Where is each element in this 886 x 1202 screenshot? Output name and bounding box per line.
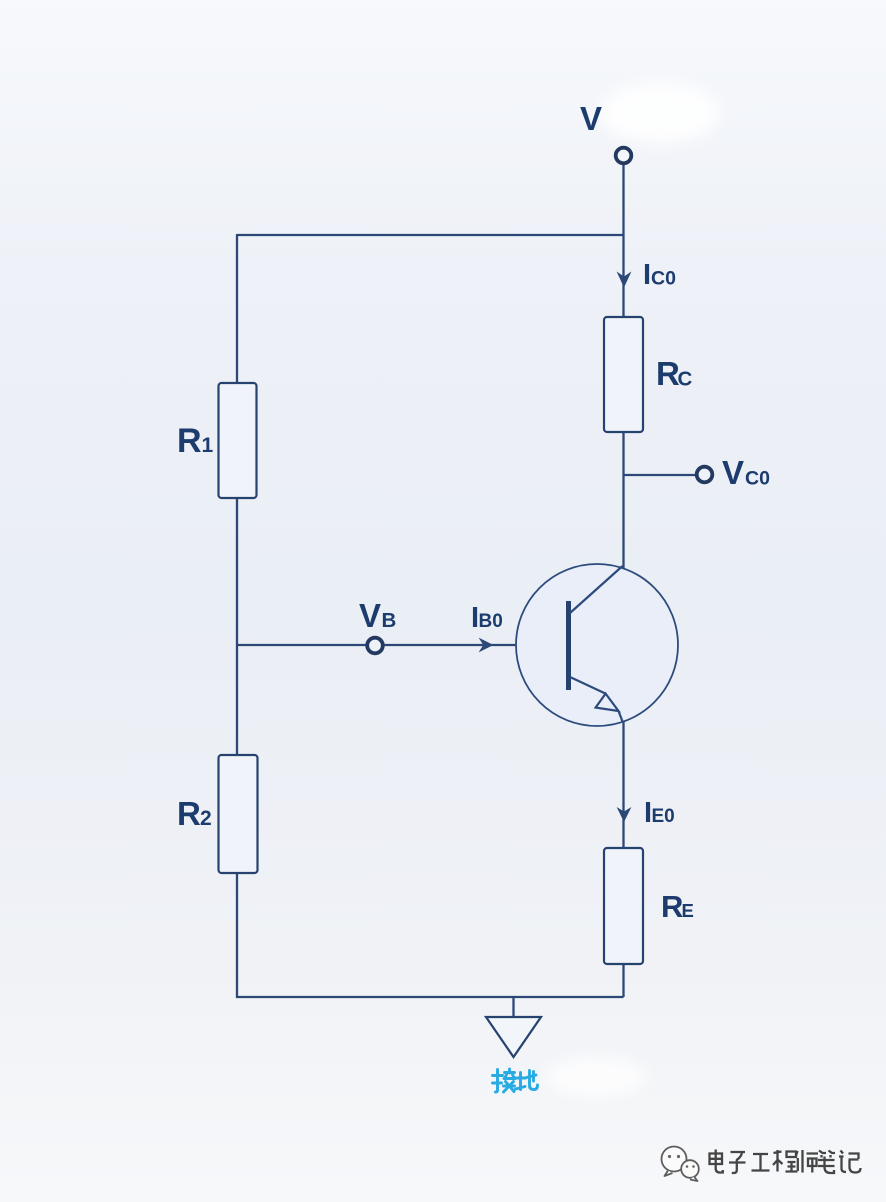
svg-text:E0: E0 — [652, 806, 675, 827]
wire: ground stub — [512, 997, 514, 1018]
wire: RC bottom to collector of transistor — [622, 432, 624, 568]
label IC0 — [643, 259, 676, 291]
svg-text:I: I — [643, 259, 651, 291]
svg-text:2: 2 — [200, 807, 212, 830]
wire: top rail from left column to collector branch — [237, 234, 624, 236]
wire: VC0 branch — [624, 474, 696, 476]
current arrow IB0 — [479, 638, 494, 653]
current arrow IC0 — [617, 272, 632, 288]
svg-text:B: B — [382, 609, 397, 632]
svg-text:R: R — [661, 889, 683, 924]
label R2 — [177, 795, 212, 832]
watermark text 电子工程师笔记 — [710, 1150, 861, 1174]
svg-text:1: 1 — [202, 434, 214, 457]
wire: emitter down to RE top — [622, 722, 624, 848]
ground — [486, 1017, 541, 1057]
svg-text:B0: B0 — [479, 611, 503, 632]
wire: RE bottom to bottom rail — [622, 964, 624, 997]
svg-text:C: C — [678, 368, 693, 391]
label VB — [359, 597, 396, 634]
node VC0 — [697, 467, 713, 483]
label R1 — [177, 422, 214, 460]
wire: left rail upper (top rail to R1) — [236, 234, 238, 383]
label IB0 — [471, 602, 503, 634]
watermark logo (WeChat icon) — [662, 1147, 699, 1182]
svg-text:R: R — [177, 795, 201, 832]
wire: left rail middle (R1 bottom to R2 top, through VB junction) — [236, 498, 238, 755]
wire: bottom rail — [236, 996, 624, 998]
wire: left rail lower (R2 bottom to bottom rail) — [236, 873, 238, 998]
label RC — [656, 355, 693, 392]
resistor RC — [604, 317, 643, 432]
resistor R2 — [219, 755, 258, 873]
label 接地 (ground) — [493, 1069, 538, 1092]
node VB — [367, 638, 383, 654]
svg-text:R: R — [656, 355, 680, 392]
wire: V terminal down to RC top — [622, 164, 624, 317]
svg-text:V: V — [722, 454, 744, 491]
label VC0 — [722, 454, 770, 491]
svg-text:C0: C0 — [745, 468, 770, 490]
resistor R1 — [219, 383, 257, 498]
node V (power supply terminal) — [616, 148, 632, 164]
svg-text:R: R — [177, 422, 202, 460]
label IE0 — [644, 797, 675, 829]
current arrow IE0 — [617, 807, 632, 822]
svg-text:E: E — [682, 900, 694, 921]
svg-text:V: V — [580, 100, 602, 137]
svg-text:C0: C0 — [651, 268, 676, 290]
label RE — [661, 889, 694, 924]
svg-text:V: V — [359, 597, 381, 634]
transistor Q1 (NPN) — [516, 564, 678, 726]
wire: base wire from left rail to transistor base — [237, 644, 567, 646]
resistor RE — [604, 848, 643, 964]
